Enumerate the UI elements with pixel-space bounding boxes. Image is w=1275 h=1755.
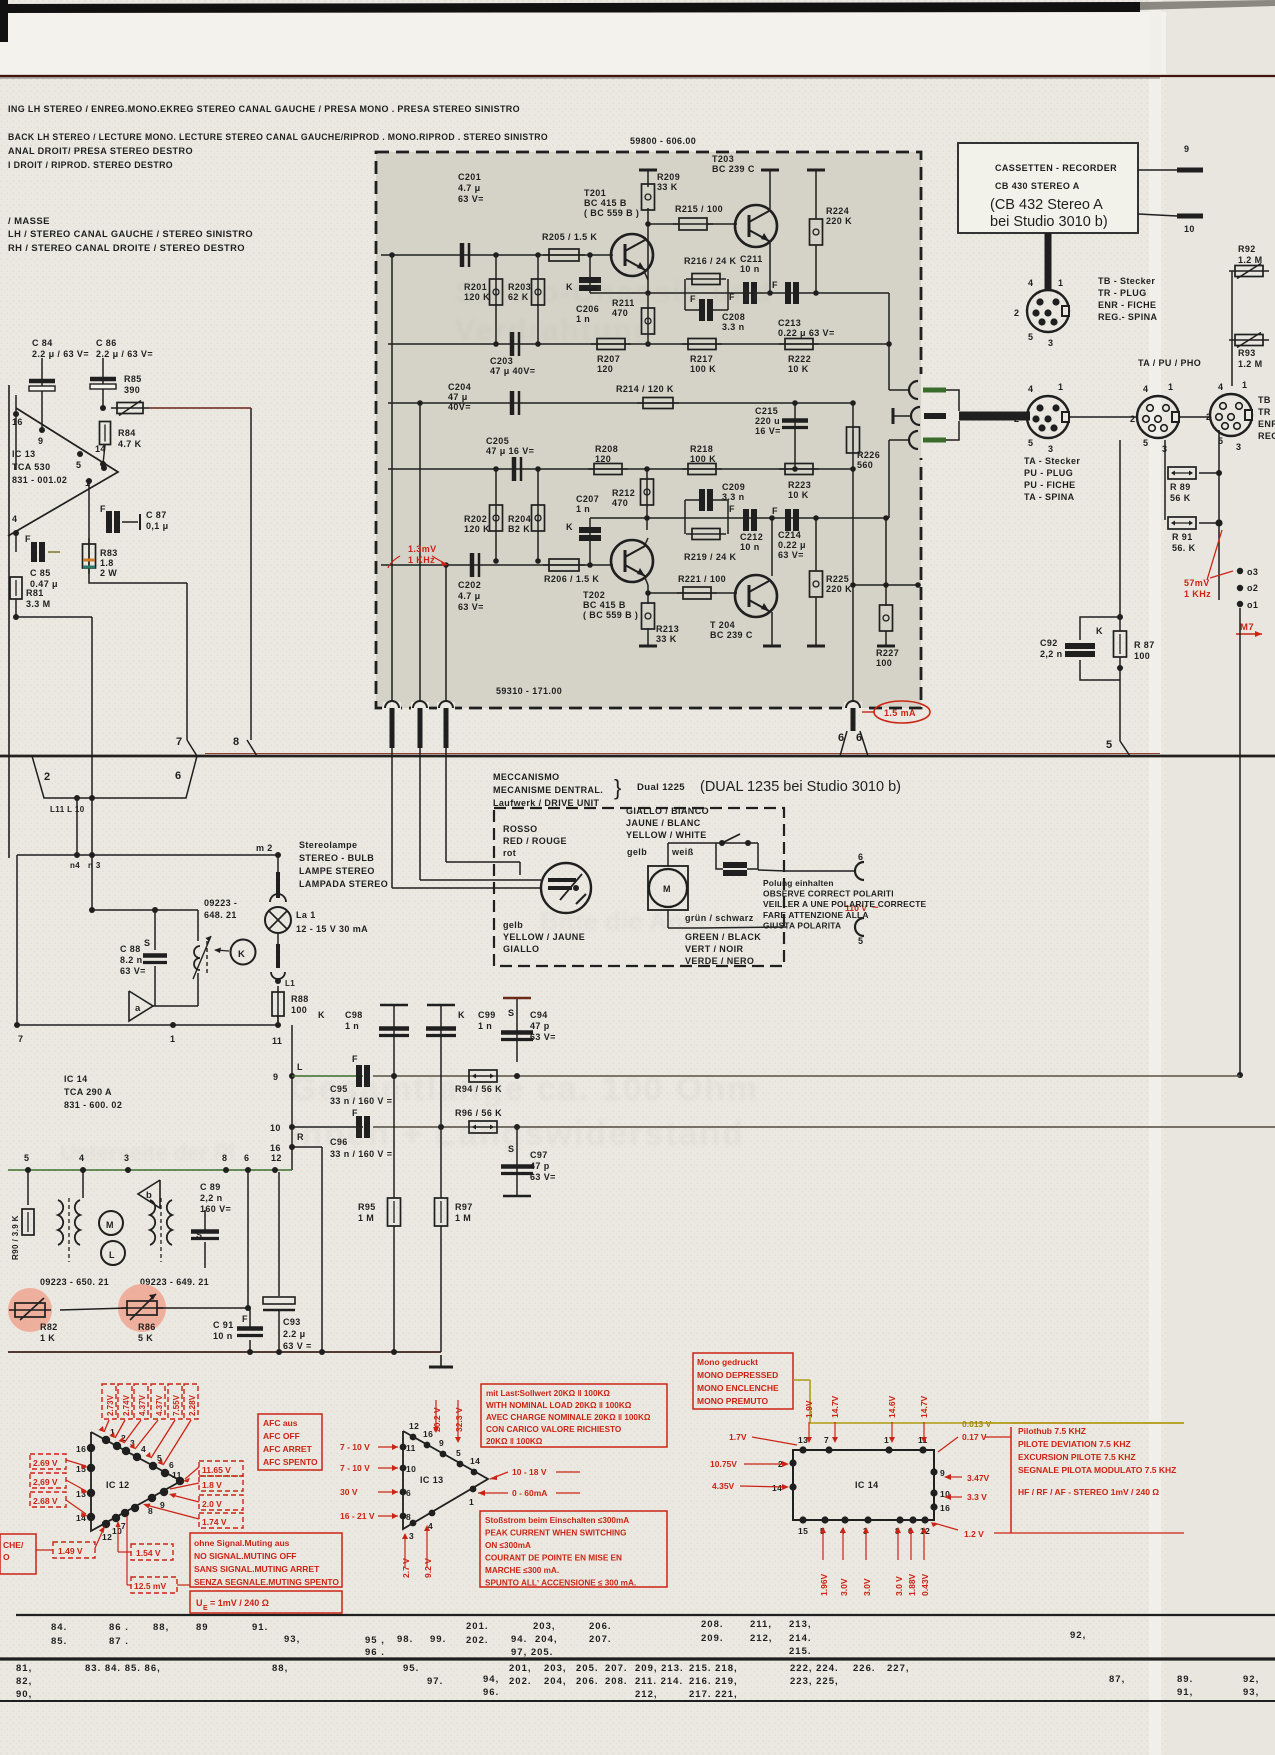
svg-text:C 85: C 85 — [30, 568, 51, 578]
svg-text:3: 3 — [409, 1531, 414, 1541]
svg-text:F: F — [729, 504, 735, 514]
svg-text:MECANISME DENTRAL.: MECANISME DENTRAL. — [493, 785, 603, 795]
svg-text:}: } — [614, 775, 621, 800]
svg-text:13: 13 — [798, 1435, 808, 1445]
svg-text:R218: R218 — [690, 444, 713, 454]
svg-text:S: S — [144, 938, 150, 948]
svg-text:5: 5 — [858, 936, 863, 946]
svg-text:IC 13: IC 13 — [12, 449, 36, 459]
svg-text:4: 4 — [141, 1444, 146, 1454]
svg-text:R209: R209 — [657, 172, 680, 182]
svg-text:3.0V: 3.0V — [862, 1578, 872, 1596]
svg-text:R222: R222 — [788, 354, 811, 364]
svg-text:o1: o1 — [1247, 600, 1258, 610]
svg-text:10 - 18 V: 10 - 18 V — [512, 1467, 547, 1477]
svg-text:ENR: ENR — [1258, 419, 1275, 429]
svg-text:94.: 94. — [511, 1634, 527, 1645]
svg-text:IC 13: IC 13 — [420, 1475, 444, 1485]
svg-text:1 K: 1 K — [40, 1333, 55, 1343]
svg-text:92,: 92, — [1070, 1630, 1086, 1641]
svg-text:63 V=: 63 V= — [530, 1172, 556, 1182]
svg-text:R205 / 1.5 K: R205 / 1.5 K — [542, 232, 597, 242]
svg-text:10.75V: 10.75V — [710, 1459, 737, 1469]
svg-text:CON CARICO VALORE RICHIESTO: CON CARICO VALORE RICHIESTO — [486, 1425, 622, 1434]
svg-text:R204: R204 — [508, 514, 531, 524]
svg-text:ohne Signal.Muting aus: ohne Signal.Muting aus — [194, 1538, 290, 1548]
svg-text:C204: C204 — [448, 382, 471, 392]
svg-text:SPUNTO ALLʼ ACCENSIONE ≤ 300: SPUNTO ALLʼ ACCENSIONE ≤ 300 mA. — [485, 1579, 636, 1588]
svg-text:L11 L 10: L11 L 10 — [50, 805, 85, 814]
svg-text:1.3mV: 1.3mV — [408, 544, 437, 554]
svg-text:223, 225,: 223, 225, — [790, 1676, 839, 1687]
svg-text:F: F — [772, 506, 778, 516]
svg-text:F: F — [242, 1314, 248, 1324]
svg-text:I DROIT / RIPROD. STEREO DESTR: I DROIT / RIPROD. STEREO DESTRO — [8, 160, 173, 171]
svg-text:TB - Stecker: TB - Stecker — [1098, 276, 1155, 286]
svg-text:5: 5 — [1143, 438, 1148, 448]
svg-text:R84: R84 — [118, 428, 136, 438]
svg-text:09223 - 649. 21: 09223 - 649. 21 — [140, 1277, 209, 1287]
svg-text:95.: 95. — [403, 1663, 419, 1674]
svg-text:o3: o3 — [1247, 567, 1258, 577]
svg-text:3: 3 — [1048, 338, 1053, 348]
svg-text:= 1mV / 240 Ω: = 1mV / 240 Ω — [210, 1598, 269, 1608]
svg-text:11: 11 — [272, 1036, 282, 1046]
svg-text:10: 10 — [406, 1464, 416, 1474]
svg-text:REG.: REG. — [1258, 431, 1275, 441]
svg-text:16: 16 — [940, 1503, 950, 1513]
svg-text:RED / ROUGE: RED / ROUGE — [503, 836, 567, 846]
svg-text:2.68 V: 2.68 V — [33, 1496, 58, 1506]
svg-text:1: 1 — [469, 1497, 474, 1507]
svg-text:3.3 V: 3.3 V — [967, 1492, 987, 1502]
svg-text:14.7V: 14.7V — [919, 1395, 929, 1418]
svg-text:BC 239 C: BC 239 C — [710, 630, 753, 640]
svg-text:63 V =: 63 V = — [283, 1341, 312, 1351]
svg-text:10 n: 10 n — [740, 264, 760, 274]
svg-text:83. 84. 85. 86,: 83. 84. 85. 86, — [85, 1663, 161, 1674]
svg-text:89: 89 — [196, 1622, 209, 1633]
svg-text:C 84: C 84 — [32, 338, 53, 348]
svg-text:4: 4 — [1028, 384, 1033, 394]
svg-text:10 n: 10 n — [213, 1331, 233, 1341]
svg-text:R93: R93 — [1238, 348, 1256, 358]
svg-text:TA / PU / PHO: TA / PU / PHO — [1138, 358, 1201, 368]
svg-text:VERT / NOIR: VERT / NOIR — [685, 944, 744, 954]
svg-text:Verdrahtung: Verdrahtung — [455, 314, 654, 347]
svg-text:R219 / 24 K: R219 / 24 K — [684, 552, 737, 562]
svg-text:PILOTE DEVIATION 7.5 KHZ: PILOTE DEVIATION 7.5 KHZ — [1018, 1439, 1131, 1449]
svg-text:K: K — [318, 1010, 325, 1020]
svg-text:208.: 208. — [605, 1676, 628, 1687]
svg-text:n4: n4 — [70, 861, 80, 870]
svg-text:Pilothub 7.5 KHZ: Pilothub 7.5 KHZ — [1018, 1426, 1086, 1436]
svg-text:16: 16 — [12, 417, 23, 427]
svg-text:11: 11 — [406, 1443, 416, 1453]
svg-text:TB: TB — [1258, 395, 1271, 405]
svg-text:96 .: 96 . — [365, 1647, 385, 1658]
svg-text:gelb: gelb — [627, 847, 647, 857]
svg-text:390: 390 — [124, 385, 140, 395]
svg-text:Bitte die Anschlusse nur: Bitte die Anschlusse nur — [540, 906, 844, 936]
svg-text:96.: 96. — [483, 1687, 499, 1698]
svg-text:212,: 212, — [750, 1633, 773, 1644]
svg-text:1: 1 — [1058, 278, 1063, 288]
svg-text:6: 6 — [244, 1153, 249, 1163]
svg-text:R217: R217 — [690, 354, 713, 364]
svg-text:6: 6 — [406, 1488, 411, 1498]
svg-text:7: 7 — [176, 736, 183, 748]
svg-text:1.54 V: 1.54 V — [136, 1548, 161, 1558]
svg-text:( BC 559 B ): ( BC 559 B ) — [584, 208, 639, 218]
svg-text:56 K: 56 K — [1170, 493, 1191, 503]
svg-text:33 K: 33 K — [656, 634, 677, 644]
svg-text:1 n: 1 n — [345, 1021, 359, 1031]
svg-text:209, 213.: 209, 213. — [635, 1663, 684, 1674]
svg-text:C94: C94 — [530, 1010, 548, 1020]
svg-text:C215: C215 — [755, 406, 778, 416]
svg-text:2,2 n: 2,2 n — [1040, 649, 1063, 659]
svg-text:B2 K: B2 K — [508, 524, 530, 534]
svg-text:215. 218,: 215. 218, — [689, 1663, 738, 1674]
svg-text:87 .: 87 . — [109, 1636, 129, 1647]
svg-text:/ MASSE: / MASSE — [8, 216, 50, 227]
svg-text:F: F — [25, 534, 31, 544]
svg-text:57mV: 57mV — [1184, 578, 1210, 588]
svg-text:12: 12 — [409, 1421, 419, 1431]
svg-text:0.17 V: 0.17 V — [962, 1432, 987, 1442]
svg-text:56. K: 56. K — [1172, 543, 1196, 553]
svg-text:93,: 93, — [1243, 1687, 1259, 1698]
svg-text:1 KHz: 1 KHz — [1184, 589, 1211, 599]
svg-text:IC 14: IC 14 — [855, 1480, 879, 1490]
svg-text:1: 1 — [1058, 382, 1063, 392]
svg-text:97.: 97. — [427, 1676, 443, 1687]
svg-text:216. 219,: 216. 219, — [689, 1676, 738, 1687]
svg-text:10 K: 10 K — [788, 364, 809, 374]
svg-text:648. 21: 648. 21 — [204, 910, 237, 920]
svg-text:59800 - 606.00: 59800 - 606.00 — [630, 136, 696, 146]
svg-text:K: K — [458, 1010, 465, 1020]
svg-text:220 K: 220 K — [826, 216, 852, 226]
svg-text:98.: 98. — [397, 1634, 413, 1645]
svg-text:1.88V: 1.88V — [907, 1573, 917, 1596]
svg-text:U: U — [196, 1598, 203, 1608]
svg-text:1.2 V: 1.2 V — [964, 1529, 984, 1539]
svg-text:C 89: C 89 — [200, 1182, 221, 1192]
svg-text:R225: R225 — [826, 574, 849, 584]
svg-text:gelb: gelb — [503, 920, 523, 930]
svg-text:MONO DEPRESSED: MONO DEPRESSED — [697, 1370, 778, 1380]
svg-text:3.3 n: 3.3 n — [722, 322, 745, 332]
svg-text:C 86: C 86 — [96, 338, 117, 348]
svg-text:209.: 209. — [701, 1633, 724, 1644]
svg-text:88,: 88, — [272, 1663, 288, 1674]
svg-text:1 M: 1 M — [455, 1213, 471, 1223]
svg-text:63 V=: 63 V= — [778, 550, 804, 560]
svg-text:MONO PREMUTO: MONO PREMUTO — [697, 1396, 769, 1406]
svg-text:211. 214.: 211. 214. — [635, 1676, 683, 1687]
svg-text:20KΩ ‖ 100KΩ: 20KΩ ‖ 100KΩ — [486, 1437, 543, 1446]
svg-text:2.7 V: 2.7 V — [401, 1558, 411, 1578]
svg-text:C207: C207 — [576, 494, 599, 504]
svg-text:AFC OFF: AFC OFF — [263, 1431, 300, 1441]
svg-text:202.: 202. — [466, 1635, 489, 1646]
svg-text:La 1: La 1 — [296, 910, 316, 920]
svg-text:63 V=: 63 V= — [458, 602, 484, 612]
svg-text:C212: C212 — [740, 532, 763, 542]
svg-text:16: 16 — [270, 1143, 281, 1153]
svg-text:R221 / 100: R221 / 100 — [678, 574, 726, 584]
svg-text:14: 14 — [772, 1483, 782, 1493]
svg-text:30 V: 30 V — [340, 1487, 358, 1497]
svg-text:204,: 204, — [544, 1676, 567, 1687]
svg-text:AFC SPENTO: AFC SPENTO — [263, 1457, 318, 1467]
svg-text:REG.- SPINA: REG.- SPINA — [1098, 312, 1158, 322]
svg-text:RH / STEREO CANAL DROITE / S: RH / STEREO CANAL DROITE / STEREO DESTRO — [8, 243, 245, 254]
svg-text:1: 1 — [170, 1034, 175, 1044]
svg-text:1: 1 — [884, 1435, 889, 1445]
svg-text:90,: 90, — [16, 1689, 32, 1700]
svg-text:47 μ: 47 μ — [448, 392, 468, 402]
svg-text:R86: R86 — [138, 1322, 156, 1332]
svg-text:S: S — [508, 1008, 514, 1018]
svg-text:217. 221,: 217. 221, — [689, 1689, 738, 1700]
svg-text:2: 2 — [1014, 414, 1019, 424]
svg-text:C202: C202 — [458, 580, 481, 590]
svg-text:8: 8 — [233, 736, 240, 748]
svg-text:LAMPADA STEREO: LAMPADA STEREO — [299, 879, 388, 889]
svg-text:0.22 μ: 0.22 μ — [778, 540, 806, 550]
svg-text:GIALLO / BIANCO: GIALLO / BIANCO — [626, 806, 709, 816]
svg-text:MONO ENCLENCHE: MONO ENCLENCHE — [697, 1383, 779, 1393]
svg-text:100 K: 100 K — [690, 364, 716, 374]
svg-text:2.2 μ / 63 V=: 2.2 μ / 63 V= — [96, 349, 153, 359]
svg-text:5: 5 — [1028, 438, 1033, 448]
svg-text:COURANT DE POINTE EN MISE EN: COURANT DE POINTE EN MISE EN — [485, 1554, 622, 1563]
svg-text:Stoßstrom beim Einschalten ≤: Stoßstrom beim Einschalten ≤300mA — [485, 1516, 629, 1525]
svg-text:4.35V: 4.35V — [712, 1481, 735, 1491]
svg-text:ROSSO: ROSSO — [503, 824, 538, 834]
svg-text:Stereolampe: Stereolampe — [299, 840, 357, 850]
svg-text:Mono gedruckt: Mono gedruckt — [697, 1357, 758, 1367]
svg-text:3.3 n: 3.3 n — [722, 492, 745, 502]
svg-text:9: 9 — [439, 1438, 444, 1448]
svg-text:b: b — [146, 1190, 152, 1201]
svg-text:T203: T203 — [712, 154, 734, 164]
svg-text:C211: C211 — [740, 254, 763, 264]
svg-text:o2: o2 — [1247, 583, 1258, 593]
svg-text:R85: R85 — [124, 374, 142, 384]
svg-text:MECCANISMO: MECCANISMO — [493, 772, 560, 782]
svg-text:211,: 211, — [750, 1619, 772, 1630]
svg-text:ON ≤300mA: ON ≤300mA — [485, 1541, 531, 1550]
svg-text:94,: 94, — [483, 1674, 499, 1685]
svg-text:10: 10 — [1184, 224, 1195, 234]
svg-text:16: 16 — [76, 1444, 86, 1454]
svg-text:7: 7 — [121, 1521, 126, 1531]
svg-text:100 K: 100 K — [690, 454, 716, 464]
svg-text:Gesamtlange ca. 100 Ohm: Gesamtlange ca. 100 Ohm — [290, 1070, 759, 1108]
svg-text:R 89: R 89 — [1170, 482, 1191, 492]
svg-text:F: F — [100, 504, 106, 514]
svg-text:63 V=: 63 V= — [120, 966, 146, 976]
svg-text:8.2 n: 8.2 n — [120, 955, 143, 965]
svg-text:VERDE / NERO: VERDE / NERO — [685, 956, 754, 966]
svg-text:7: 7 — [18, 1034, 23, 1044]
svg-text:2.2 μ / 63 V=: 2.2 μ / 63 V= — [32, 349, 89, 359]
svg-text:0.22 μ 63 V=: 0.22 μ 63 V= — [778, 328, 835, 338]
svg-text:831 - 600. 02: 831 - 600. 02 — [64, 1100, 122, 1110]
svg-text:227,: 227, — [887, 1663, 910, 1674]
svg-text:1.74 V: 1.74 V — [202, 1517, 227, 1527]
svg-text:226.: 226. — [853, 1663, 876, 1674]
svg-text:C99: C99 — [478, 1010, 496, 1020]
svg-text:9: 9 — [38, 436, 43, 446]
svg-text:E: E — [203, 1605, 208, 1612]
svg-text:R208: R208 — [595, 444, 618, 454]
svg-text:5: 5 — [76, 460, 81, 470]
svg-text:K: K — [238, 949, 245, 960]
svg-text:mit Last∶Sollwert 20KΩ ‖ 100K: mit Last∶Sollwert 20KΩ ‖ 100KΩ — [486, 1389, 610, 1398]
svg-text:R97: R97 — [455, 1202, 473, 1212]
svg-text:C209: C209 — [722, 482, 745, 492]
svg-text:0,1 μ: 0,1 μ — [146, 521, 169, 531]
svg-text:PEAK CURRENT WHEN SWITCHING: PEAK CURRENT WHEN SWITCHING — [485, 1529, 626, 1538]
svg-text:2.74V: 2.74V — [122, 1394, 131, 1416]
svg-text:TCA 530: TCA 530 — [12, 462, 50, 472]
svg-text:CHE/: CHE/ — [3, 1540, 24, 1550]
svg-text:206.: 206. — [589, 1621, 612, 1632]
svg-text:16 - 21 V: 16 - 21 V — [340, 1511, 375, 1521]
svg-text:201,: 201, — [509, 1663, 532, 1674]
svg-text:560: 560 — [857, 460, 873, 470]
svg-text:47 p: 47 p — [530, 1021, 550, 1031]
svg-text:R202: R202 — [464, 514, 487, 524]
svg-text:rot: rot — [503, 848, 516, 858]
svg-text:CASSETTEN - RECORDER: CASSETTEN - RECORDER — [995, 163, 1117, 173]
svg-text:3.47V: 3.47V — [967, 1473, 990, 1483]
svg-text:12.5 mV: 12.5 mV — [134, 1581, 166, 1591]
svg-text:100: 100 — [291, 1005, 307, 1015]
svg-text:R215 / 100: R215 / 100 — [675, 204, 723, 214]
svg-text:5: 5 — [1028, 332, 1033, 342]
svg-text:R83: R83 — [100, 548, 118, 558]
svg-text:6: 6 — [858, 852, 863, 862]
svg-text:1 n: 1 n — [576, 504, 590, 514]
svg-text:m 2: m 2 — [256, 843, 273, 853]
svg-text:4.7 μ: 4.7 μ — [458, 591, 481, 601]
svg-text:R223: R223 — [788, 480, 811, 490]
svg-text:(CB 432 Stereo A: (CB 432 Stereo A — [990, 197, 1103, 213]
svg-text:2.0 V: 2.0 V — [202, 1499, 222, 1509]
svg-text:STEREO - BULB: STEREO - BULB — [299, 853, 374, 863]
svg-text:4: 4 — [12, 514, 17, 524]
svg-text:TA - Stecker: TA - Stecker — [1024, 456, 1080, 466]
svg-text:Dual 1225: Dual 1225 — [637, 782, 685, 793]
svg-text:5: 5 — [1106, 739, 1113, 751]
svg-text:R88: R88 — [291, 994, 309, 1004]
svg-text:7 - 10 V: 7 - 10 V — [340, 1442, 370, 1452]
svg-text:BC 415 B: BC 415 B — [584, 198, 627, 208]
svg-text:TR - PLUG: TR - PLUG — [1098, 288, 1147, 298]
svg-text:1.9V: 1.9V — [804, 1400, 814, 1418]
svg-text:AVEC CHARGE NOMINALE 20KΩ ‖ 10: AVEC CHARGE NOMINALE 20KΩ ‖ 100KΩ — [486, 1413, 651, 1422]
svg-text:SANS SIGNAL.MUTING ARRET: SANS SIGNAL.MUTING ARRET — [194, 1564, 320, 1574]
svg-text:214.: 214. — [789, 1633, 812, 1644]
svg-text:1.49 V: 1.49 V — [58, 1546, 83, 1556]
svg-text:88,: 88, — [153, 1622, 169, 1633]
svg-text:Polung einhalten: Polung einhalten — [763, 878, 834, 888]
svg-text:12: 12 — [102, 1532, 112, 1542]
svg-text:M: M — [106, 1220, 114, 1230]
svg-text:33 K: 33 K — [657, 182, 678, 192]
svg-text:GIALLO: GIALLO — [503, 944, 539, 954]
svg-text:220 u: 220 u — [755, 416, 780, 426]
svg-text:L: L — [109, 1250, 115, 1260]
svg-text:IC 12: IC 12 — [106, 1480, 130, 1490]
svg-text:8: 8 — [406, 1512, 411, 1522]
svg-text:R212: R212 — [612, 488, 635, 498]
svg-text:3: 3 — [1236, 442, 1241, 452]
svg-text:11.65 V: 11.65 V — [202, 1465, 231, 1475]
svg-text:R95: R95 — [358, 1202, 376, 1212]
svg-text:47 μ 40V=: 47 μ 40V= — [490, 366, 535, 376]
svg-text:87,: 87, — [1109, 1674, 1125, 1685]
svg-text:1: 1 — [1242, 380, 1247, 390]
svg-text:201.: 201. — [466, 1621, 489, 1632]
svg-text:2.69 V: 2.69 V — [33, 1458, 58, 1468]
svg-text:Laufwerk / DRIVE UNIT: Laufwerk / DRIVE UNIT — [493, 798, 600, 808]
svg-text:Unterseite der Pl: Unterseite der Pl — [60, 1140, 235, 1165]
svg-text:2: 2 — [1014, 308, 1019, 318]
svg-text:HF / RF / AF - STEREO 1mV /: HF / RF / AF - STEREO 1mV / 240 Ω — [1018, 1487, 1159, 1497]
svg-text:C203: C203 — [490, 356, 513, 366]
svg-text:4: 4 — [1143, 384, 1148, 394]
svg-text:59310 - 171.00: 59310 - 171.00 — [496, 686, 562, 696]
svg-text:L1: L1 — [285, 979, 295, 988]
svg-text:100: 100 — [1134, 651, 1150, 661]
svg-text:NO SIGNAL.MUTING OFF: NO SIGNAL.MUTING OFF — [194, 1551, 296, 1561]
svg-text:3.3 M: 3.3 M — [26, 599, 51, 609]
svg-text:120: 120 — [597, 364, 613, 374]
svg-text:831 - 001.02: 831 - 001.02 — [12, 475, 67, 485]
svg-text:bei Studio 3010 b): bei Studio 3010 b) — [990, 214, 1108, 230]
svg-text:JAUNE / BLANC: JAUNE / BLANC — [626, 818, 701, 828]
svg-text:9: 9 — [1184, 144, 1189, 154]
svg-text:R81: R81 — [26, 588, 44, 598]
svg-text:CB 430 STEREO A: CB 430 STEREO A — [995, 181, 1080, 191]
svg-text:99.: 99. — [430, 1634, 446, 1645]
svg-text:120: 120 — [595, 454, 611, 464]
svg-text:R82: R82 — [40, 1322, 58, 1332]
svg-text:4: 4 — [1218, 382, 1223, 392]
svg-text:2.73V: 2.73V — [106, 1394, 115, 1416]
svg-text:9: 9 — [273, 1072, 278, 1082]
svg-text:14: 14 — [470, 1456, 480, 1466]
svg-text:4.7 μ: 4.7 μ — [458, 183, 481, 193]
svg-text:84.: 84. — [51, 1622, 67, 1633]
svg-text:R 87: R 87 — [1134, 640, 1155, 650]
svg-text:10 n: 10 n — [740, 542, 760, 552]
svg-text:YELLOW / WHITE: YELLOW / WHITE — [626, 830, 707, 840]
svg-text:1.8: 1.8 — [100, 558, 114, 568]
svg-text:63 V=: 63 V= — [530, 1032, 556, 1042]
svg-text:R207: R207 — [597, 354, 620, 364]
svg-text:470: 470 — [612, 498, 628, 508]
svg-text:2,2 n: 2,2 n — [200, 1193, 223, 1203]
svg-text:203,: 203, — [544, 1663, 567, 1674]
